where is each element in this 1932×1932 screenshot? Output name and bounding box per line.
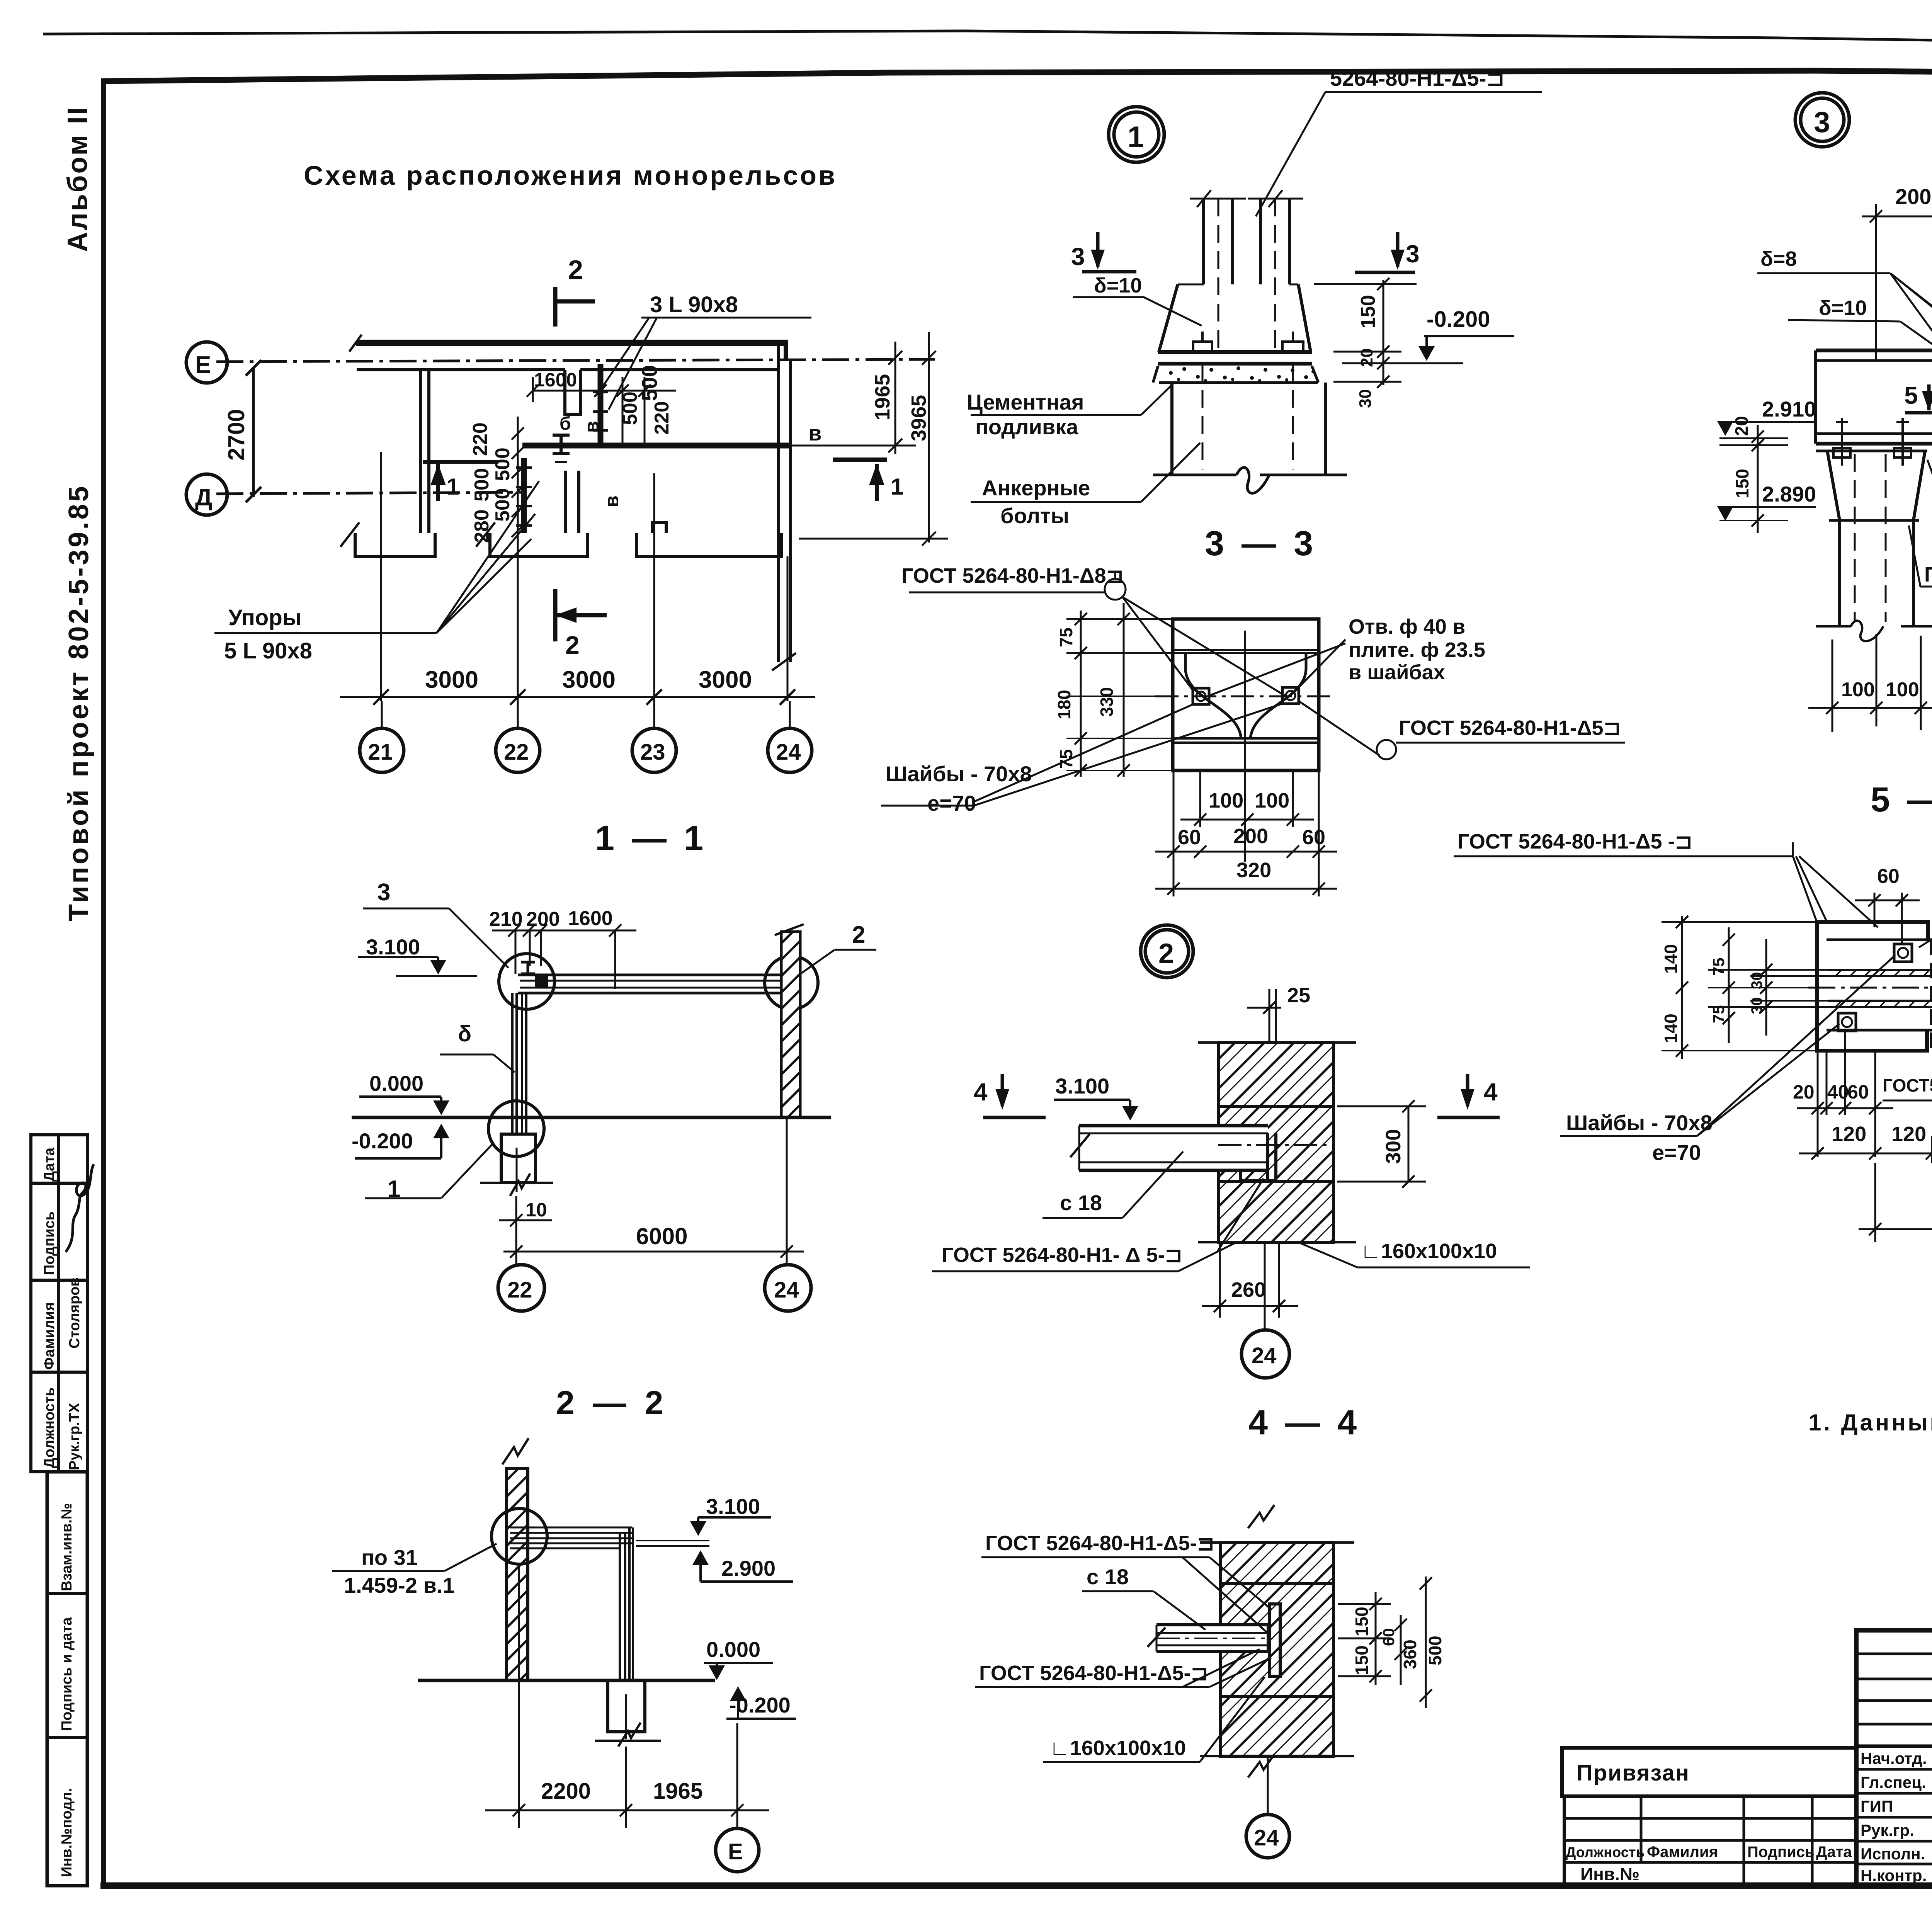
svg-text:22: 22 [507, 1277, 532, 1303]
hatched strips [1828, 969, 1932, 971]
svg-text:в: в [808, 421, 821, 445]
bubbles 22/24 [498, 1265, 811, 1311]
dims 200/200 top [1862, 204, 1932, 437]
svg-text:Е: Е [728, 1839, 743, 1864]
svg-text:Гл.спец.: Гл.спец. [1861, 1773, 1926, 1791]
svg-text:ГОСТ 5264-80-Н1- Δ 5-⊐: ГОСТ 5264-80-Н1- Δ 5-⊐ [942, 1243, 1182, 1267]
dim chains internal: upper (220 500 500 + 1600) [527, 377, 676, 444]
axis E dash-dot line [216, 359, 935, 362]
svg-text:60: 60 [1877, 865, 1900, 888]
svg-text:24: 24 [776, 740, 801, 765]
svg-text:1 — 1: 1 — 1 [595, 819, 707, 858]
svg-text:Подпись: Подпись [41, 1211, 58, 1275]
svg-text:Альбом II: Альбом II [62, 105, 93, 252]
svg-text:75: 75 [1056, 749, 1076, 769]
svg-text:е=70: е=70 [927, 791, 976, 815]
ground line [418, 1679, 715, 1682]
svg-text:30: 30 [1748, 997, 1765, 1015]
svg-text:в шайбах: в шайбах [1349, 661, 1445, 684]
svg-text:2: 2 [852, 922, 865, 948]
svg-text:120: 120 [1832, 1122, 1866, 1146]
bubble 24 [1267, 1756, 1269, 1814]
column [620, 1527, 633, 1680]
svg-text:2: 2 [568, 255, 583, 285]
svg-text:ГОСТ 5264-80-Н1-Δ5 -⊐: ГОСТ 5264-80-Н1-Δ5 -⊐ [1458, 830, 1692, 853]
svg-text:60: 60 [1178, 826, 1201, 849]
svg-text:2.900: 2.900 [721, 1556, 776, 1580]
long monorail 'в' horizontal [522, 443, 791, 449]
left wall vertical (col 21-22 wall) [419, 368, 422, 533]
svg-text:210: 210 [489, 908, 523, 930]
cement band [1159, 381, 1318, 384]
bubble E [716, 1828, 759, 1872]
thin axis verticals [380, 452, 382, 556]
svg-text:100: 100 [1255, 789, 1289, 812]
svg-text:с 18: с 18 [1087, 1565, 1129, 1589]
dims right [1338, 1577, 1432, 1708]
svg-text:Подпись: Подпись [1747, 1844, 1815, 1861]
dim 2700 line [252, 368, 255, 497]
svg-text:Рук.гр.ТХ: Рук.гр.ТХ [66, 1403, 83, 1470]
svg-text:Привязан: Привязан [1577, 1760, 1690, 1786]
node 2 bubble [1141, 925, 1193, 978]
end plate + angle [1266, 1133, 1269, 1183]
bottom dim 3000s [340, 689, 815, 705]
svg-text:Фамилия: Фамилия [41, 1302, 58, 1370]
svg-text:140: 140 [1661, 944, 1681, 974]
svg-text:3000: 3000 [425, 667, 478, 693]
left dim chain 75/180/75/330 [1066, 603, 1173, 777]
svg-text:20: 20 [1357, 348, 1376, 367]
svg-text:б: б [560, 413, 571, 434]
svg-text:Инв.№: Инв.№ [1580, 1864, 1639, 1884]
svg-text:300: 300 [1382, 1129, 1405, 1164]
svg-text:Типовой проект 802-5-39.85: Типовой проект 802-5-39.85 [63, 484, 94, 921]
svg-text:-0.200: -0.200 [352, 1129, 413, 1153]
svg-text:Инв.№подл.: Инв.№подл. [59, 1788, 75, 1877]
svg-text:500: 500 [492, 447, 514, 481]
svg-text:3965: 3965 [907, 395, 930, 441]
svg-text:Фамилия: Фамилия [1647, 1844, 1718, 1861]
svg-text:ГОСТ 5264-80-Н1-Δ8⊐: ГОСТ 5264-80-Н1-Δ8⊐ [901, 564, 1124, 587]
svg-text:180: 180 [1054, 690, 1074, 719]
120 120 dim [1799, 1136, 1932, 1163]
section 5 mark left lower [1905, 384, 1932, 413]
svg-text:200: 200 [526, 908, 560, 930]
beam double line [518, 975, 796, 993]
dims 210 200 1600 [492, 924, 636, 989]
svg-text:∟160х100х10: ∟160х100х10 [1049, 1736, 1186, 1760]
svg-text:330: 330 [1097, 687, 1117, 717]
svg-text:δ: δ [458, 1021, 471, 1046]
svg-text:75: 75 [1056, 628, 1076, 647]
svg-text:5: 5 [1904, 381, 1918, 409]
column bubbles 21-24 [360, 701, 812, 772]
svg-text:100: 100 [1209, 789, 1243, 812]
table texts (rotated) [41, 1147, 83, 1877]
svg-text:3 — 3: 3 — 3 [1205, 524, 1317, 563]
right wall verticals [777, 344, 780, 662]
svg-text:Н.контр.: Н.контр. [1861, 1866, 1927, 1884]
svg-text:с 18: с 18 [1060, 1190, 1102, 1215]
svg-text:24: 24 [774, 1277, 799, 1303]
svg-text:в: в [601, 495, 622, 507]
strip hatching [1835, 970, 1932, 1007]
svg-text:Отв. ф 40 в: Отв. ф 40 в [1349, 615, 1465, 638]
tick dashes on upper monorail [593, 391, 608, 393]
dash-dot axes [1808, 912, 1932, 1132]
svg-text:3000: 3000 [699, 667, 752, 693]
svg-text:Дата: Дата [1816, 1844, 1852, 1861]
svg-text:Д: Д [195, 484, 212, 511]
svg-text:320: 320 [1236, 859, 1271, 882]
svg-text:3.100: 3.100 [706, 1494, 760, 1519]
svg-text:ГОСТ5264-80-Н1Δ5-⊐: ГОСТ5264-80-Н1Δ5-⊐ [1883, 1075, 1932, 1095]
svg-text:10: 10 [526, 1199, 547, 1221]
right dims 150/20/30 [1314, 278, 1463, 388]
foundation [1170, 383, 1173, 475]
svg-text:500: 500 [471, 468, 493, 502]
svg-text:2 — 2: 2 — 2 [556, 1384, 668, 1422]
svg-text:22: 22 [504, 740, 529, 765]
washers [1193, 688, 1209, 704]
node 1 bubble [1109, 107, 1164, 162]
wall right hatched [775, 924, 804, 1117]
svg-text:ГОСТ 5264-80-Н1-Δ5⊐: ГОСТ 5264-80-Н1-Δ5⊐ [1399, 716, 1621, 740]
svg-text:плите. ф 23.5: плите. ф 23.5 [1349, 638, 1485, 662]
svg-text:Цементная: Цементная [967, 390, 1084, 414]
svg-text:4: 4 [1484, 1078, 1498, 1106]
svg-text:ГОСТ 5264-80-Н1-Δ 5-⊐: ГОСТ 5264-80-Н1-Δ 5-⊐ [1924, 563, 1932, 586]
svg-text:2.890: 2.890 [1762, 482, 1816, 506]
section 2 marks [555, 287, 607, 641]
main stamp grid [1562, 1630, 1932, 1886]
svg-text:3.100: 3.100 [1055, 1074, 1109, 1098]
svg-text:Исполн.: Исполн. [1861, 1845, 1925, 1863]
foundation [595, 1680, 661, 1747]
svg-text:75: 75 [1709, 957, 1728, 976]
svg-text:Взам.инв.№: Взам.инв.№ [59, 1503, 75, 1591]
svg-text:220: 220 [469, 422, 492, 456]
column below [1816, 450, 1927, 452]
svg-text:0.000: 0.000 [369, 1071, 423, 1095]
svg-text:150: 150 [1352, 1645, 1372, 1675]
end plate [1269, 1604, 1280, 1676]
svg-text:1: 1 [446, 474, 459, 500]
cement dots [1169, 366, 1315, 382]
main beam [1816, 345, 1932, 641]
axis E circle [186, 342, 227, 383]
300 dim [1337, 1100, 1426, 1188]
dim chain left of lower monorail [512, 425, 524, 542]
svg-text:Упоры: Упоры [228, 605, 301, 630]
260 dim [1202, 1242, 1298, 1318]
svg-text:2: 2 [1158, 938, 1174, 969]
base plate plan view [1155, 619, 1335, 778]
monorail cut section (solid) [535, 974, 548, 988]
svg-text:30: 30 [1748, 972, 1765, 990]
svg-text:500: 500 [619, 391, 641, 425]
svg-text:Схема расположения монорельс: Схема расположения монорельсов [304, 160, 837, 190]
wall below beam along E [357, 368, 565, 371]
footing row left [355, 533, 435, 556]
svg-text:3.100: 3.100 [366, 935, 420, 959]
svg-text:Подпись и дата: Подпись и дата [59, 1617, 75, 1731]
svg-text:25: 25 [1287, 984, 1310, 1007]
beam entering [1148, 1604, 1280, 1676]
svg-text:6000: 6000 [636, 1223, 687, 1249]
hidden edge dashed [1930, 940, 1932, 1051]
svg-text:0.000: 0.000 [706, 1637, 760, 1662]
wall stub below D (horizontal) [423, 460, 498, 464]
svg-text:Е: Е [195, 352, 211, 378]
б monorail symbol [553, 435, 570, 462]
svg-text:ГИП: ГИП [1861, 1797, 1893, 1815]
svg-text:Должность: Должность [1566, 1844, 1645, 1860]
middle wall vertical pair [564, 471, 567, 533]
svg-text:20: 20 [1731, 416, 1752, 436]
svg-text:140: 140 [1661, 1014, 1681, 1043]
svg-text:5264-80-Н1-Δ5-⊐: 5264-80-Н1-Δ5-⊐ [1330, 66, 1504, 90]
svg-text:Нач.отд.: Нач.отд. [1861, 1749, 1927, 1767]
svg-text:-0.200: -0.200 [1427, 307, 1490, 332]
monorail beam along axis E (plan) [340, 335, 796, 701]
svg-text:2.910: 2.910 [1762, 397, 1816, 421]
svg-text:260: 260 [1231, 1278, 1266, 1301]
dim 2200/1965 [485, 1565, 769, 1828]
section 4 marks [983, 1074, 1500, 1117]
Привязан box [1562, 1748, 1856, 1796]
ground line [352, 1116, 831, 1119]
svg-text:60: 60 [1379, 1628, 1398, 1646]
svg-text:1. Данный лист смотри совместн: 1. Данный лист смотри совместно с листом [1808, 1410, 1932, 1435]
10 dim [499, 1214, 552, 1226]
wall hatched [502, 1438, 529, 1680]
node 3 bubble [1795, 93, 1849, 147]
svg-text:1600: 1600 [568, 907, 613, 930]
svg-text:Дата: Дата [41, 1147, 58, 1182]
axis D dash-dot line [216, 492, 526, 494]
svg-text:Столяров: Столяров [66, 1277, 83, 1349]
bubble 24 [1264, 1242, 1266, 1330]
beam flange lines [1827, 939, 1932, 941]
svg-text:2200: 2200 [541, 1779, 591, 1804]
400 dim [1859, 1136, 1932, 1248]
footing middle [490, 533, 588, 556]
axis D circle [186, 474, 227, 515]
svg-text:3 L 90х8: 3 L 90х8 [650, 292, 738, 317]
beam (channel) [1070, 1126, 1333, 1183]
svg-text:Рук.гр.: Рук.гр. [1861, 1821, 1914, 1839]
footing right [636, 533, 782, 556]
svg-text:280: 280 [471, 509, 493, 543]
lower monorail 'в' vertical [521, 458, 527, 533]
svg-text:4: 4 [974, 1078, 988, 1106]
svg-text:3: 3 [1814, 106, 1830, 139]
svg-text:Должность: Должность [41, 1387, 58, 1468]
svg-text:ГОСТ 5264-80-Н1-Δ5-⊐: ГОСТ 5264-80-Н1-Δ5-⊐ [979, 1662, 1208, 1685]
node circle right [765, 956, 818, 1009]
svg-text:150: 150 [1352, 1607, 1372, 1636]
svg-text:болты: болты [1000, 503, 1069, 528]
node circle [492, 1509, 547, 1564]
svg-text:Анкерные: Анкерные [982, 476, 1090, 500]
svg-text:120: 120 [1891, 1122, 1926, 1146]
svg-text:3000: 3000 [562, 667, 616, 693]
svg-text:по 31: по 31 [361, 1545, 418, 1570]
node circle left with I symbol [499, 954, 554, 1009]
tall signature table [1856, 1630, 1932, 1886]
100/100 dim below column [1808, 634, 1932, 732]
svg-text:24: 24 [1254, 1825, 1279, 1850]
washers [1838, 944, 1912, 1031]
svg-text:24: 24 [1252, 1343, 1277, 1368]
svg-text:150: 150 [1357, 295, 1379, 328]
left signature table [31, 1135, 87, 1886]
svg-text:500: 500 [492, 488, 514, 522]
upper monorail 'в' vertical [598, 364, 604, 444]
svg-text:Шайбы - 70х8: Шайбы - 70х8 [1566, 1111, 1713, 1135]
section 1 marks [438, 460, 887, 501]
column [512, 993, 526, 1134]
svg-text:∟160х100х10: ∟160х100х10 [1361, 1240, 1497, 1263]
svg-text:360: 360 [1400, 1639, 1420, 1669]
bottom dims [1155, 770, 1337, 896]
svg-text:1965: 1965 [871, 374, 894, 420]
svg-text:5 L 90х8: 5 L 90х8 [224, 638, 312, 663]
svg-text:500: 500 [1425, 1636, 1445, 1665]
bolts under beam at column [1833, 418, 1911, 466]
bolts on plate [1193, 342, 1212, 352]
svg-text:ГОСТ 5264-80-Н1-Δ5-⊐: ГОСТ 5264-80-Н1-Δ5-⊐ [985, 1532, 1214, 1555]
base plate [1158, 350, 1312, 354]
svg-text:3: 3 [1071, 243, 1085, 270]
svg-text:3: 3 [1406, 240, 1420, 268]
taper [1159, 284, 1178, 352]
svg-text:3: 3 [377, 879, 390, 906]
svg-text:δ=8: δ=8 [1760, 247, 1797, 270]
svg-text:4 — 4: 4 — 4 [1248, 1403, 1361, 1442]
svg-text:δ=10: δ=10 [1819, 296, 1867, 320]
svg-text:220: 220 [651, 401, 673, 435]
svg-text:20: 20 [1793, 1081, 1815, 1103]
signature squiggle [66, 1164, 94, 1252]
svg-text:60: 60 [1847, 1081, 1869, 1103]
svg-text:1.459-2 в.1: 1.459-2 в.1 [344, 1573, 455, 1597]
svg-text:75: 75 [1709, 1005, 1728, 1023]
svg-text:30: 30 [1356, 389, 1375, 408]
svg-text:1: 1 [1128, 121, 1144, 153]
svg-text:1600: 1600 [534, 369, 577, 391]
foundation [480, 1134, 553, 1196]
beam multi-line [510, 1527, 709, 1548]
column I-beam above base [1153, 190, 1347, 493]
svg-text:5 — 5: 5 — 5 [1871, 781, 1932, 819]
right side dims 1965 / 3965 [791, 332, 948, 546]
bracket body [1817, 922, 1932, 1051]
svg-text:е=70: е=70 [1652, 1140, 1701, 1165]
svg-text:200: 200 [1895, 184, 1931, 209]
svg-text:23: 23 [640, 740, 665, 765]
svg-text:Шайбы - 70х8: Шайбы - 70х8 [886, 762, 1032, 786]
svg-text:100: 100 [1886, 679, 1919, 701]
svg-text:60: 60 [1302, 826, 1325, 849]
svg-text:2700: 2700 [223, 409, 249, 461]
svg-text:подливка: подливка [975, 415, 1078, 439]
svg-text:1965: 1965 [653, 1779, 703, 1804]
svg-text:в: в [581, 421, 602, 433]
I-beam flange curves [1185, 653, 1241, 738]
left dims 140/75/30 [1662, 916, 1828, 1059]
wall [1198, 1043, 1356, 1242]
svg-text:150: 150 [1732, 469, 1752, 498]
niche slot [565, 370, 580, 414]
leaders from washers to Шайбы label [881, 704, 1282, 806]
svg-text:21: 21 [368, 740, 393, 765]
svg-text:200: 200 [1233, 825, 1268, 848]
svg-text:1: 1 [891, 474, 903, 500]
svg-text:100: 100 [1841, 679, 1875, 701]
section 3 marks [1082, 232, 1415, 272]
6000 dim [503, 1117, 804, 1265]
wall [1200, 1505, 1354, 1777]
svg-text:δ=10: δ=10 [1094, 274, 1142, 297]
svg-text:2: 2 [565, 631, 580, 659]
